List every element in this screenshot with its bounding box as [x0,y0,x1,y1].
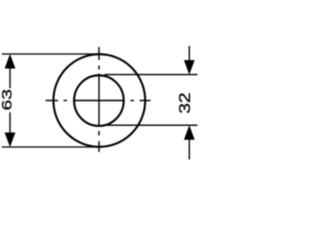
extension line bottom-left (63) [2,146,102,148]
inner circle (Ø32) [74,75,124,126]
outer circle (Ø63) [53,54,145,147]
dimension tail top-right [188,46,190,61]
arrow 32 top (pointing down) [184,60,195,75]
svg-text:63: 63 [0,89,15,110]
extension line bottom-right (32) [105,124,198,126]
arrow 32 bottom (pointing up) [184,125,195,140]
dimension tail bottom-right [188,139,190,160]
technical drawing: ring washer Ø63 / Ø32 [0,0,200,200]
centerline horizontal [46,100,151,102]
arrow 63 top [5,54,16,69]
arrow 63 bottom [5,133,16,148]
centerline vertical [98,47,100,152]
extension line top-right (32) [105,74,198,76]
dimension line 63 (vertical, with text gap) [9,68,11,88]
svg-text:32: 32 [176,92,194,113]
extension line top-left (63) [2,53,102,55]
